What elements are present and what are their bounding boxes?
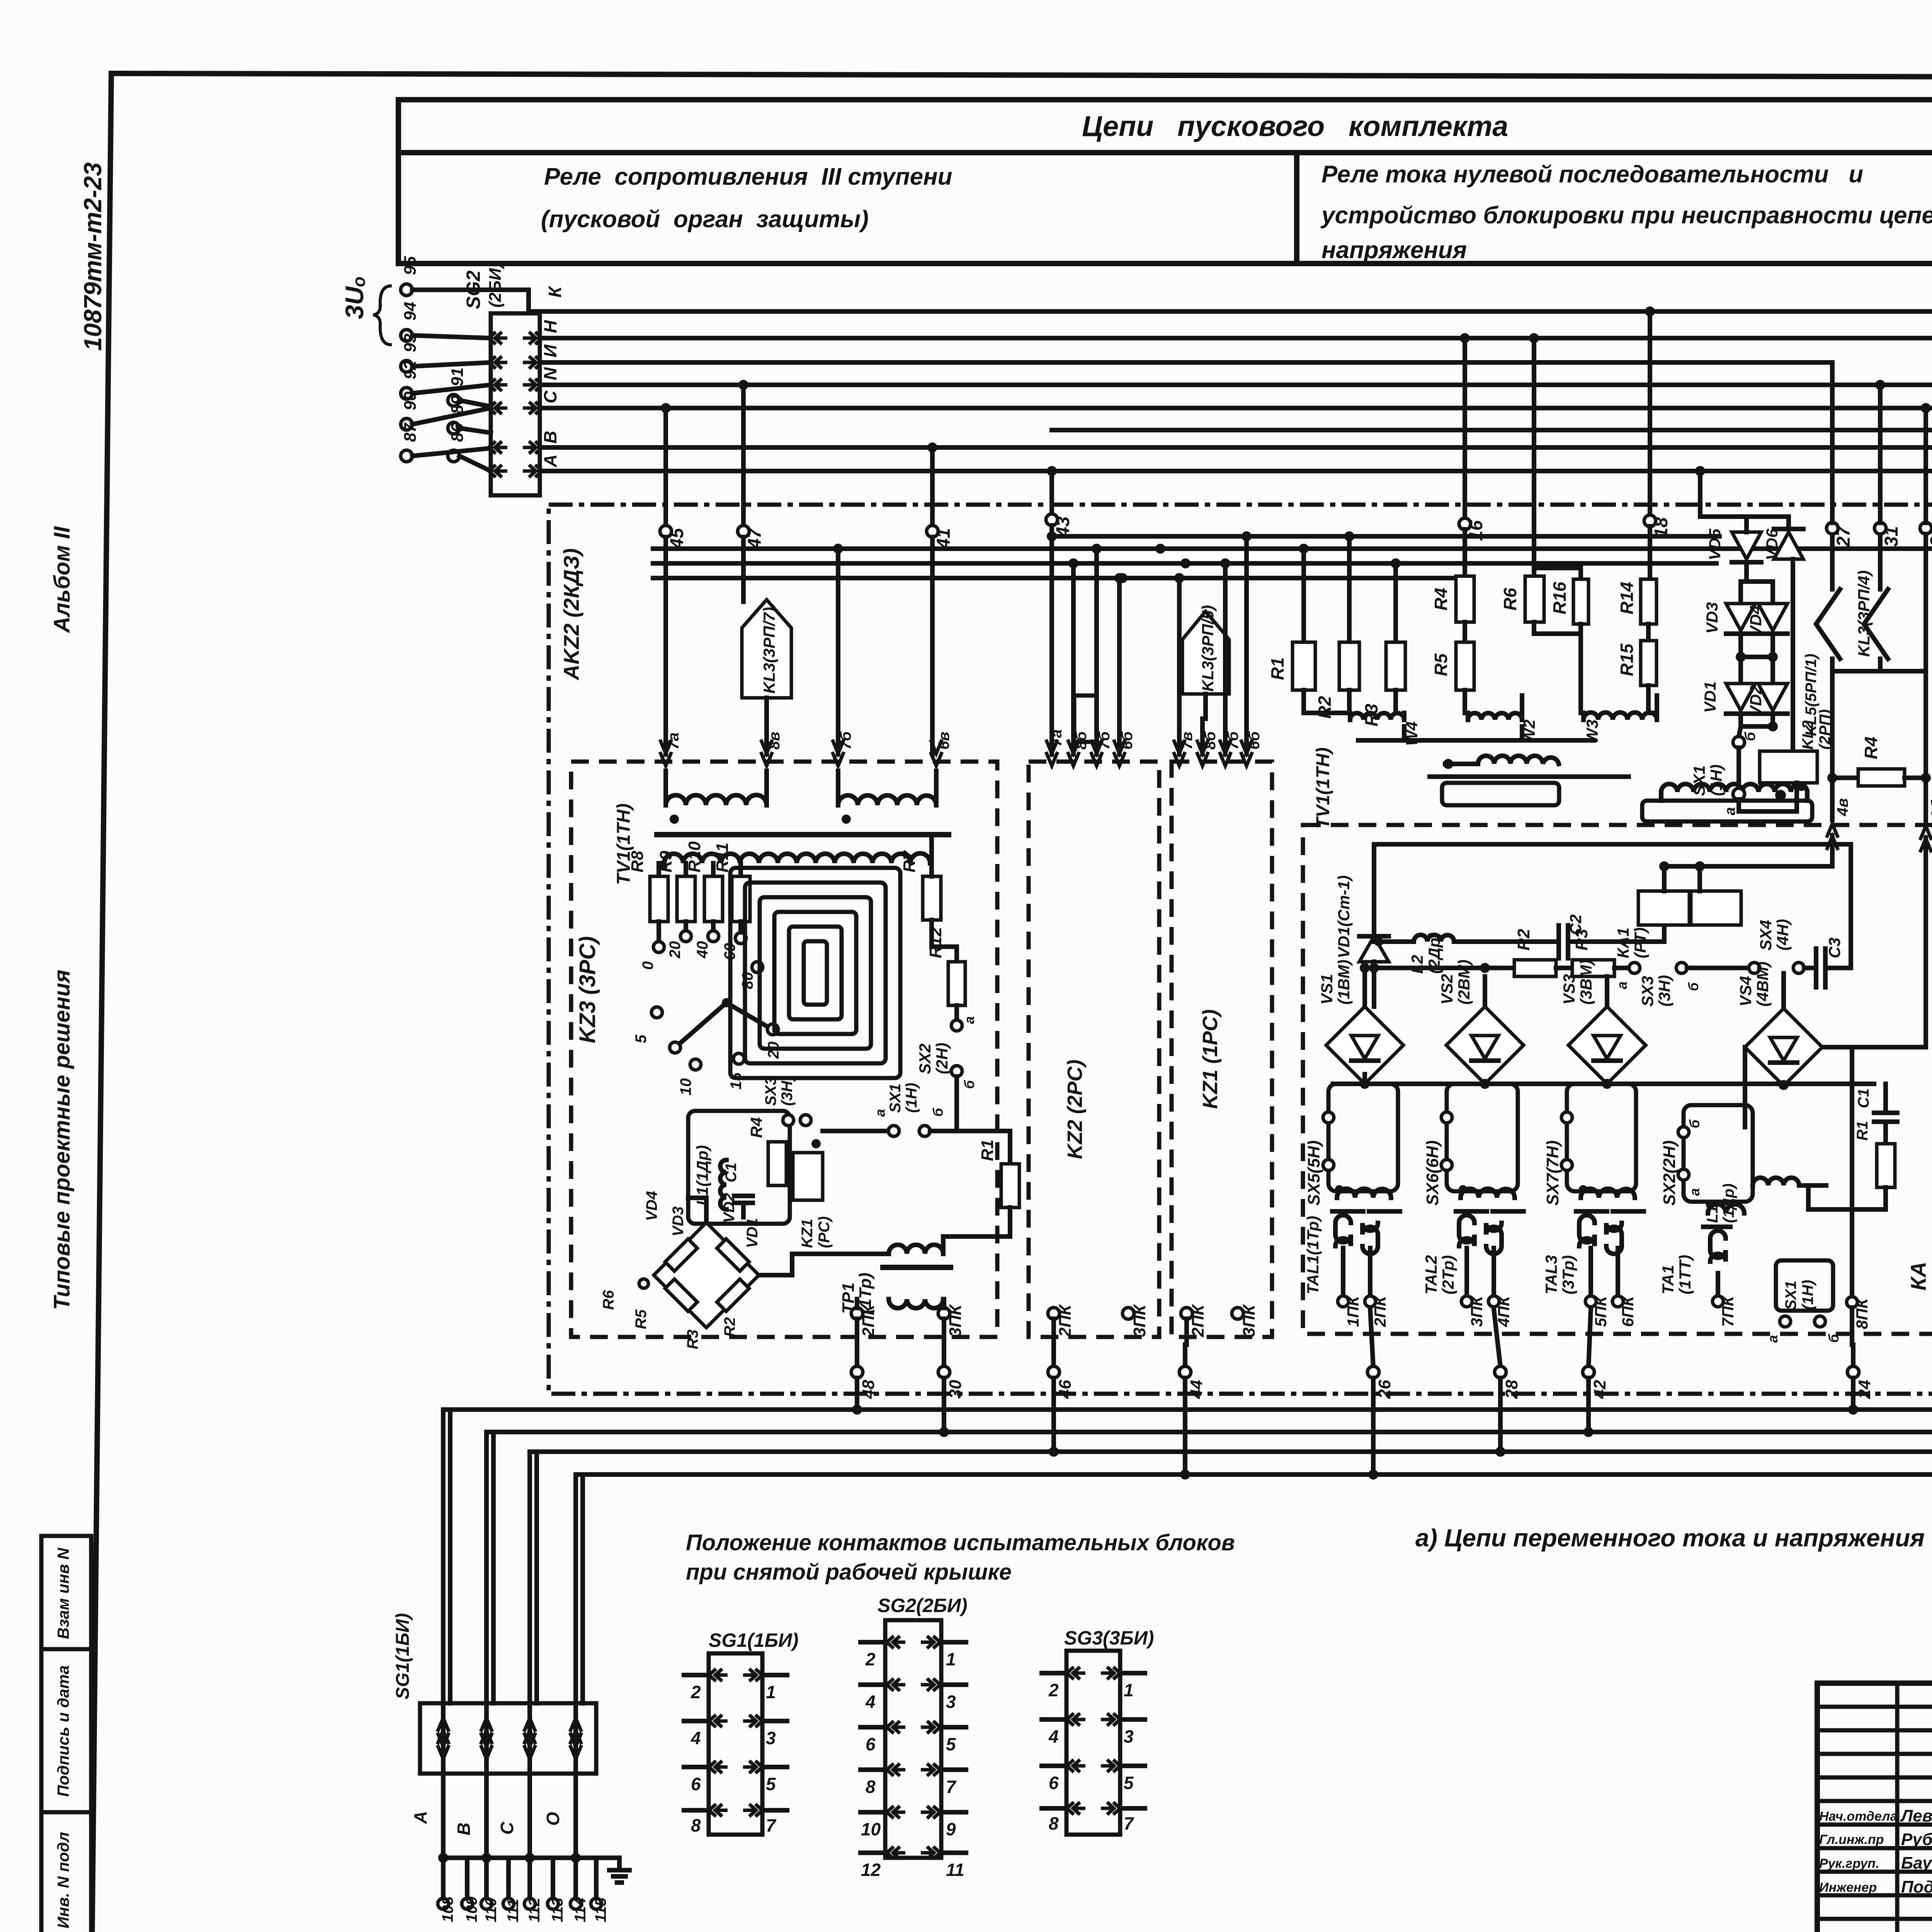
wire 8ПК to 24 [1852, 1308, 1853, 1367]
svg-text:7: 7 [766, 1815, 777, 1835]
svg-text:30: 30 [946, 1380, 965, 1399]
svg-text:SX5(5Н): SX5(5Н) [1304, 1140, 1323, 1206]
jumper block SX5(5Н) [1328, 1084, 1398, 1191]
svg-text:Нач.отдела: Нач.отдела [1819, 1809, 1897, 1824]
relay KA1(РТ) [1638, 891, 1689, 925]
svg-text:6: 6 [691, 1774, 701, 1794]
svg-text:б: б [1685, 982, 1701, 991]
wire 87 row [412, 448, 491, 456]
svg-text:(2Н): (2Н) [933, 1043, 951, 1074]
SG3 diagram [1066, 1651, 1120, 1835]
TV1 primary winding a [663, 771, 668, 805]
svg-text:Инженер: Инженер [1819, 1880, 1877, 1895]
terminal 16 [1463, 338, 1467, 519]
svg-text:VS3: VS3 [1560, 974, 1578, 1005]
KZ2 feed 6б [1117, 578, 1122, 754]
ground [617, 1858, 622, 1870]
terminal 43 [1049, 471, 1054, 514]
jumper block SX7(7Н) [1567, 1084, 1636, 1191]
svg-text:R2: R2 [1514, 929, 1533, 951]
svg-text:2ПК: 2ПК [1371, 1295, 1389, 1327]
svg-text:1ПК: 1ПК [1344, 1295, 1362, 1327]
SG1 contact pair C [527, 1703, 532, 1774]
wire а down to SG1 [484, 1432, 489, 1703]
VD5 to VD3 VD4 tie [1744, 565, 1749, 582]
svg-text:7в: 7в [1179, 732, 1196, 750]
svg-text:31: 31 [1881, 526, 1902, 547]
terminal 115 [594, 1858, 599, 1898]
block KZ1 (1РС) dashed boundary [1172, 762, 1272, 1337]
svg-text:б: б [1742, 731, 1759, 741]
svg-text:3ПК: 3ПК [946, 1304, 965, 1337]
rectifier bridge VS2(2ВМ) [1446, 1007, 1524, 1084]
svg-text:5ПК: 5ПК [1592, 1295, 1610, 1327]
svg-text:TAL1(1Тр): TAL1(1Тр) [1304, 1216, 1322, 1294]
svg-text:R1: R1 [1267, 657, 1287, 680]
svg-text:5: 5 [633, 1034, 650, 1043]
terminal 48 [851, 1366, 863, 1378]
svg-text:R2: R2 [721, 1317, 738, 1337]
SG1 contact pair D [573, 1703, 578, 1774]
svg-text:VS1: VS1 [1318, 974, 1336, 1005]
svg-text:6в: 6в [935, 732, 952, 750]
wire 3ПК to 30 [942, 1319, 946, 1367]
svg-text:а: а [961, 1016, 977, 1024]
svg-text:114: 114 [572, 1898, 589, 1922]
terminal 112 [527, 1858, 532, 1898]
svg-text:3: 3 [1124, 1726, 1134, 1747]
svg-text:KL3(3РП/4): KL3(3РП/4) [1855, 570, 1873, 657]
svg-text:а) Цепи переменного тока и: а) Цепи переменного тока и напряжения [1415, 1524, 1925, 1552]
terminal 8ПК [1847, 1297, 1857, 1308]
svg-text:80: 80 [739, 972, 756, 990]
distribution line 3 [653, 561, 1716, 566]
distribution line 1 [1052, 534, 1719, 539]
svg-text:(3ВМ): (3ВМ) [1577, 959, 1595, 1005]
svg-text:а: а [1765, 1335, 1781, 1343]
svg-text:К: К [545, 286, 565, 298]
TV1 core [1430, 774, 1629, 779]
capacitor C1 КА [1883, 1084, 1888, 1113]
svg-text:SX1: SX1 [1690, 765, 1708, 796]
jumper block SX2(2Н) КА [1684, 1105, 1753, 1202]
svg-text:R16: R16 [1549, 582, 1570, 614]
svg-text:Гл.инж.пр: Гл.инж.пр [1819, 1832, 1884, 1847]
wire 93 row [412, 362, 491, 366]
svg-text:А: А [410, 1811, 430, 1824]
junction 47 on bus N [738, 380, 748, 390]
terminal 47 [741, 385, 746, 526]
terminal 109 [465, 1858, 469, 1898]
TV1 long winding [1445, 762, 1478, 766]
svg-text:R11: R11 [713, 843, 732, 872]
svg-text:2ПК: 2ПК [1056, 1304, 1075, 1337]
diode VD1(Ст-1) [1359, 936, 1389, 962]
svg-text:1: 1 [766, 1682, 776, 1702]
VS bottoms to jumper blocks [1362, 1074, 1367, 1084]
svg-text:8: 8 [691, 1815, 701, 1835]
terminal 44 [1179, 1366, 1191, 1378]
resistor R8 [656, 863, 661, 876]
svg-text:R3: R3 [684, 1330, 701, 1349]
svg-text:(4ВМ): (4ВМ) [1753, 961, 1772, 1007]
svg-text:8ПК: 8ПК [1853, 1297, 1871, 1329]
rectifier bridge VD1-VD4 (KZ3) [654, 1223, 759, 1328]
svg-text:Альбом II: Альбом II [49, 526, 75, 634]
relay KL3(3РП/7) [742, 600, 791, 698]
TV1 primary box [1442, 783, 1559, 805]
svg-text:AKZ2 (2КДЗ): AKZ2 (2КДЗ) [559, 548, 583, 681]
bus C line [540, 406, 1932, 410]
wire 46 to б [1051, 1378, 1056, 1452]
contact SX2(2Н) [954, 1005, 959, 1020]
tap 20 [684, 922, 688, 931]
svg-text:VD2: VD2 [721, 1193, 738, 1223]
tap 80 [752, 962, 763, 973]
wire 43 down [1049, 526, 1054, 754]
svg-text:5: 5 [766, 1774, 776, 1794]
svg-text:КА: КА [1906, 1262, 1930, 1291]
svg-text:2ПК: 2ПК [859, 1304, 878, 1337]
svg-text:И: И [540, 344, 560, 357]
arrow 3б into КА [1923, 778, 1928, 822]
svg-text:110: 110 [483, 1898, 500, 1922]
terminal 110 [484, 1858, 489, 1898]
svg-text:2: 2 [690, 1682, 701, 1702]
resistor R14 [1648, 526, 1652, 579]
KZ1 feed 8б [1200, 719, 1205, 754]
terminal 94 [401, 330, 412, 341]
terminal 24 [1847, 1366, 1859, 1378]
contact SX4(4Н) [1749, 963, 1760, 973]
diode VD3 [1726, 604, 1755, 631]
bus M line [1052, 428, 1932, 432]
svg-text:C1: C1 [1855, 1088, 1872, 1108]
SG1 diagram [709, 1653, 762, 1835]
terminal 6ПК [1612, 1296, 1623, 1307]
SG2 contact row B [489, 441, 542, 454]
junction R6 rail on bus H [1529, 333, 1539, 343]
svg-text:6б: 6б [1246, 731, 1263, 750]
svg-text:KZ3 (3РС): KZ3 (3РС) [575, 936, 600, 1043]
svg-text:R10: R10 [685, 841, 704, 872]
svg-text:R14: R14 [1617, 582, 1637, 614]
terminal 4ПК [1488, 1296, 1499, 1307]
svg-text:7ПК: 7ПК [1719, 1295, 1737, 1327]
svg-text:(1ВМ): (1ВМ) [1335, 959, 1353, 1005]
contact SX1(1Н) а [1736, 748, 1741, 789]
svg-text:Рук.груп.: Рук.груп. [1819, 1856, 1879, 1871]
terminal 42 [1588, 1309, 1591, 1367]
svg-text:7а: 7а [1048, 730, 1065, 747]
terminal 111 [506, 1858, 511, 1898]
resistor R5 [1463, 622, 1467, 642]
svg-text:SX4: SX4 [1757, 920, 1775, 951]
junction 18 on bus K [1645, 306, 1655, 316]
wire SX2 down [954, 1077, 959, 1131]
svg-text:1: 1 [1124, 1680, 1134, 1700]
svg-text:16: 16 [1466, 520, 1486, 541]
svg-text:VD2: VD2 [1747, 685, 1765, 717]
left margin stamp table [41, 1536, 91, 1932]
svg-text:Н: Н [540, 320, 560, 333]
svg-text:7а: 7а [665, 733, 682, 750]
terminal 30 [938, 1366, 950, 1378]
SG2 contact row И [489, 356, 542, 369]
svg-text:4в: 4в [1834, 798, 1851, 816]
svg-text:(4Н): (4Н) [1774, 919, 1792, 951]
svg-text:3ПК: 3ПК [1240, 1304, 1259, 1337]
wire 86 stub [459, 456, 491, 471]
TV1 secondary tie line [1358, 738, 1594, 743]
svg-text:2: 2 [865, 1649, 876, 1669]
VD6 rail to KL2 [1791, 559, 1795, 751]
wire г down to SG1 [441, 1410, 446, 1703]
SG2 diagram [885, 1620, 941, 1858]
terminal 46 [1048, 1366, 1060, 1378]
arrows into KZ2 [1046, 740, 1058, 766]
КА top tie line [1374, 842, 1851, 847]
terminal 114 [573, 1858, 578, 1898]
SG2 contact row C [489, 402, 542, 414]
svg-text:6: 6 [866, 1734, 876, 1754]
svg-text:C1: C1 [723, 1163, 740, 1182]
contact KL5(5РП/1) [1830, 534, 1835, 589]
wire 91 stub [459, 400, 491, 406]
svg-text:R6: R6 [1500, 588, 1520, 611]
terminal 2ПК (KZ3) [851, 1308, 863, 1319]
svg-text:Инв. N подл: Инв. N подл [54, 1832, 72, 1929]
capacitor C3 [1804, 966, 1816, 970]
svg-text:SX3: SX3 [762, 1077, 779, 1106]
winding W4 [1301, 690, 1306, 713]
svg-text:R15: R15 [1617, 643, 1637, 676]
rectifier bridge VS3(3ВМ) [1568, 1007, 1646, 1084]
wire 2ПК to 48 [855, 1319, 859, 1367]
svg-text:112: 112 [526, 1898, 543, 1922]
terminal 95 [401, 284, 412, 296]
winding tap loops [730, 868, 900, 1078]
contact SX1(1Н) б [1738, 714, 1743, 726]
wire 48 to г [855, 1378, 859, 1410]
terminal 3ПК КА [1461, 1296, 1472, 1307]
svg-text:KZ1 (1РС): KZ1 (1РС) [1199, 1009, 1222, 1109]
svg-text:(1ТТ): (1ТТ) [1676, 1255, 1694, 1294]
svg-text:108: 108 [439, 1896, 456, 1922]
resistor R16 [1534, 568, 1581, 579]
wire 30 to а [942, 1378, 946, 1432]
svg-text:VD4: VD4 [1747, 605, 1765, 637]
svg-text:3ПК: 3ПК [1130, 1304, 1149, 1337]
svg-text:SX2(2Н): SX2(2Н) [1660, 1140, 1679, 1206]
svg-text:TAL3: TAL3 [1542, 1255, 1560, 1294]
svg-text:B: B [540, 431, 560, 444]
wire SX1 a down [1739, 783, 1797, 811]
VS bottom tie [1333, 1082, 1874, 1086]
svg-text:б: б [930, 1107, 946, 1117]
svg-text:KL3(3РП/5): KL3(3РП/5) [1199, 605, 1217, 692]
jumper SX1(1Н) КА [1776, 1260, 1833, 1311]
svg-text:R8: R8 [628, 850, 647, 872]
svg-text:N: N [540, 367, 560, 380]
svg-text:напряжения: напряжения [1321, 237, 1467, 264]
resistor R4 [1463, 529, 1467, 576]
winding W2 [1463, 690, 1467, 713]
jumper block SX6(6Н) [1447, 1084, 1518, 1191]
svg-text:(1Н): (1Н) [1799, 1280, 1816, 1310]
wire 95 to bus K jog [412, 290, 539, 311]
TV1 primary winding b [836, 771, 840, 805]
R2 R3 tie row [1374, 966, 1514, 970]
svg-text:(2Тр): (2Тр) [1439, 1255, 1457, 1294]
svg-text:R6: R6 [600, 1290, 617, 1310]
svg-text:(1Н): (1Н) [903, 1083, 920, 1113]
svg-text:С: С [497, 1821, 517, 1835]
terminal 108 [441, 1858, 446, 1898]
svg-text:VD1: VD1 [744, 1218, 761, 1248]
svg-text:8: 8 [1049, 1813, 1059, 1833]
svg-text:TA1: TA1 [1659, 1265, 1677, 1294]
relay coil KL2(2РП) [1760, 751, 1817, 783]
wire 44 to в [1183, 1378, 1187, 1475]
svg-text:Типовые проектные решения: Типовые проектные решения [49, 969, 75, 1310]
svg-text:40: 40 [694, 941, 711, 959]
contact SX3(3Н) [783, 1115, 794, 1126]
svg-text:10: 10 [677, 1078, 694, 1096]
diode VD2 [1758, 684, 1787, 711]
net line в [576, 1472, 1932, 1477]
svg-text:109: 109 [463, 1896, 480, 1922]
wire bridge to TP1 [759, 1254, 889, 1275]
R15 bottom wire [1646, 685, 1651, 713]
svg-text:2ПК: 2ПК [1189, 1304, 1207, 1337]
terminal 28 [1494, 1309, 1500, 1367]
svg-text:48: 48 [859, 1380, 878, 1399]
wire 7б drop [836, 549, 840, 754]
resistor R11 [738, 863, 743, 876]
wire 47 down to relay KL3(3РП/7) [741, 537, 746, 602]
svg-text:45: 45 [667, 527, 687, 549]
svg-text:VD1: VD1 [1701, 681, 1719, 713]
arrows into KZ1 [1173, 740, 1185, 766]
svg-text:R2: R2 [1315, 696, 1335, 719]
svg-text:R3: R3 [1572, 929, 1591, 951]
svg-text:SG1(1БИ): SG1(1БИ) [709, 1629, 799, 1651]
bus A line [540, 469, 1932, 473]
svg-text:2: 2 [1048, 1680, 1059, 1700]
SG1 contact pair B [484, 1703, 489, 1774]
svg-text:7: 7 [946, 1777, 957, 1797]
svg-text:а: а [1614, 981, 1630, 989]
VD3 VD4 to VD1 VD2 [1738, 634, 1743, 684]
wire 41 down [930, 537, 935, 754]
terminal 3ПК (KZ1) [1232, 1308, 1243, 1319]
svg-text:Реле тока нулевой последовате: Реле тока нулевой последовательности и [1321, 161, 1863, 188]
resistor R1 (KZ2) [1001, 1164, 1019, 1207]
svg-text:R4: R4 [747, 1117, 765, 1138]
terminal 31 [1874, 522, 1886, 534]
wire KL3(3РП/7) to 8в [764, 698, 769, 754]
svg-text:(3Тр): (3Тр) [1559, 1255, 1577, 1294]
svg-text:7б: 7б [1096, 731, 1113, 750]
svg-text:95: 95 [401, 256, 420, 275]
svg-text:3ПК: 3ПК [1468, 1295, 1486, 1327]
terminal 41 [930, 447, 935, 526]
svg-text:Левкович: Левкович [1900, 1806, 1932, 1825]
header title row divider [398, 150, 1932, 155]
header column divider [1294, 153, 1299, 264]
svg-text:8в: 8в [766, 732, 783, 750]
header box [398, 100, 1932, 264]
wire б down to SG1 [527, 1452, 532, 1703]
terminal 90 [401, 418, 412, 430]
relay KL3(3РП/5) [1182, 611, 1229, 694]
svg-text:Цепи пускового комплекта: Цепи пускового комплекта [1082, 110, 1508, 142]
ground tie bus [443, 1855, 619, 1860]
title block [1817, 1683, 1932, 1932]
wire 89 stub [459, 428, 491, 433]
KZ2 feed 7б [1094, 549, 1099, 754]
svg-text:КА1: КА1 [1614, 927, 1632, 958]
svg-text:VD4: VD4 [643, 1191, 660, 1221]
svg-text:3б: 3б [1929, 800, 1932, 818]
resistor R15 [1646, 624, 1651, 641]
svg-text:R4: R4 [1861, 736, 1881, 759]
net line г [443, 1407, 1932, 1412]
contact SX1(1Н) KZ3 [823, 1129, 894, 1133]
KL contacts bottom tie [1832, 669, 1926, 673]
svg-text:24: 24 [1855, 1380, 1874, 1399]
wire 2ПК(KZ1) to 44 [1185, 1319, 1187, 1367]
terminal 2ПК КА [1365, 1296, 1376, 1307]
svg-text:3: 3 [766, 1728, 776, 1748]
svg-text:Реле сопротивления III ступе: Реле сопротивления III ступени [544, 163, 952, 190]
terminal 7ПК [1713, 1296, 1723, 1307]
winding W3 [1581, 634, 1583, 720]
resistor R1 [1301, 549, 1306, 642]
svg-text:SX6(6Н): SX6(6Н) [1423, 1140, 1442, 1206]
SG2 contact row H [489, 332, 542, 344]
svg-text:8б: 8б [1202, 731, 1219, 750]
terminal 29 [1920, 522, 1932, 534]
resistor R1 КА [1883, 1122, 1888, 1144]
svg-text:R7: R7 [900, 850, 919, 872]
terminal 2ПК (KZ2) [1048, 1308, 1060, 1319]
distribution line 4 [653, 576, 1465, 580]
wire 26 to в [1371, 1378, 1376, 1475]
svg-text:TAL2: TAL2 [1422, 1255, 1440, 1294]
block KZ2 (2РС) dashed boundary [1029, 762, 1159, 1337]
TV1 second winding [1661, 784, 1807, 792]
TV1 core [657, 832, 949, 837]
wire VS4 right down [1822, 1047, 1852, 1297]
terminal 3ПК (KZ3) [938, 1308, 950, 1319]
wire 94 row [412, 335, 491, 338]
terminal 86 [448, 450, 459, 462]
svg-text:SG1(1БИ): SG1(1БИ) [393, 1613, 413, 1699]
svg-text:(2ВМ): (2ВМ) [1455, 959, 1473, 1005]
svg-text:7: 7 [1124, 1813, 1134, 1833]
KZ1 feed 7б [1223, 563, 1228, 754]
svg-text:(1Н): (1Н) [1707, 764, 1725, 796]
svg-text:(3Н): (3Н) [1655, 975, 1673, 1007]
svg-text:28: 28 [1502, 1380, 1521, 1399]
svg-text:Взам инв N: Взам инв N [54, 1547, 72, 1639]
svg-text:а: а [872, 1109, 888, 1117]
diode VD4 [1758, 604, 1787, 631]
tap 40 [711, 922, 716, 931]
wire 24 to г [1851, 1378, 1855, 1410]
